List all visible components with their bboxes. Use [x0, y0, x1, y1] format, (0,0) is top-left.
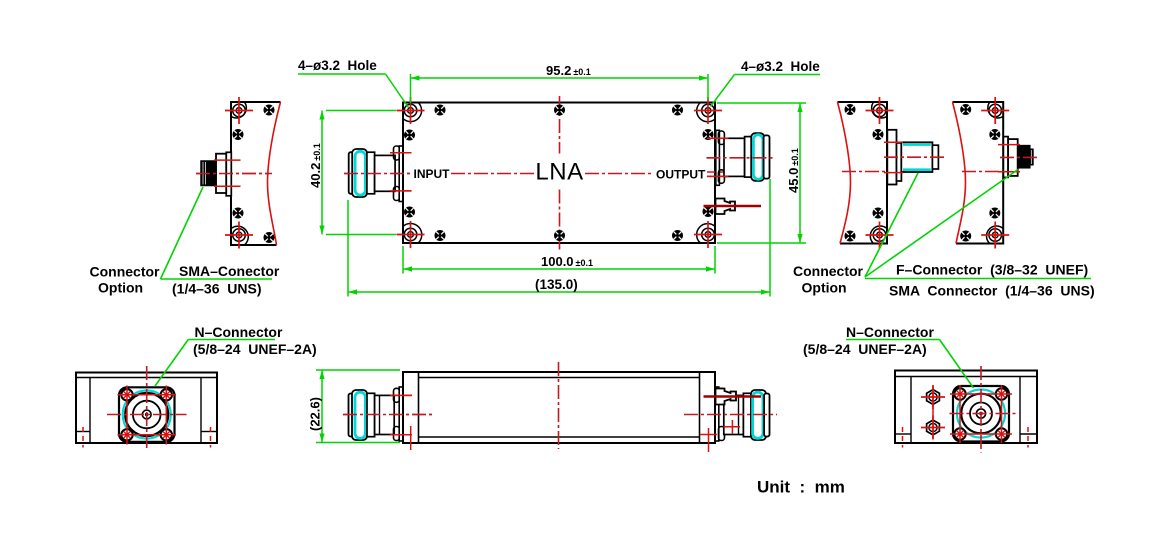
callout 4-dia3.2 hole right: underline	[735, 74, 821, 76]
dimension (22.6): extension line top	[316, 369, 400, 371]
bottom-middle view: right N connector barrel	[724, 395, 744, 434]
output N-connector: mounting tab bottom	[718, 170, 724, 184]
input N-connector: tab centerline bottom overlay	[390, 190, 412, 192]
main view: corner lug fillet top-left	[403, 103, 422, 122]
main view: corner lug fillet bottom-right	[697, 224, 715, 243]
right view F: mounting hole top	[866, 97, 894, 124]
DC feedthrough: pin centerline	[704, 205, 762, 208]
svg-text:N–Connector: N–Connector	[846, 324, 934, 340]
dimension 40.2: arrow top	[319, 111, 324, 120]
bottom-right view: N connector flange square	[953, 386, 1009, 442]
input N-connector: mounting tab bottom	[394, 187, 400, 201]
main view: horizontal axis centerline input-side	[344, 173, 412, 175]
bottom-right view: flange screw column line right	[1001, 385, 1003, 443]
main view: cover screw bottom-middle	[554, 230, 565, 241]
svg-text:(5/8–24 UNEF–2A): (5/8–24 UNEF–2A)	[803, 341, 927, 357]
svg-text:LNA: LNA	[535, 159, 583, 186]
main view: vertical centerline upper segment	[559, 96, 561, 154]
bottom-left view: lid seam line	[76, 377, 217, 379]
right view F: F-connector end cap	[932, 145, 938, 169]
input N-connector: flange plate	[399, 146, 403, 202]
main view: output connector tab centerline bottom	[707, 175, 729, 177]
main view: cover screw right-lower	[703, 206, 714, 217]
right view F: tab centerline bottom	[884, 172, 903, 174]
bottom-middle view: left N connector tab bottom	[394, 427, 400, 441]
svg-text:N–Connector: N–Connector	[195, 324, 283, 340]
main view: input connector tab centerline bottom	[390, 190, 412, 192]
left side view: SMA connector step plate outer	[226, 152, 231, 196]
bottom-middle view: left N connector spacer ring	[367, 393, 375, 436]
bottom-middle view: right N connector cyan ring	[753, 392, 763, 438]
connector option callout right: underline	[865, 278, 1091, 280]
left side view: cover screw mid-lower	[233, 208, 244, 219]
output N-connector: end cap	[764, 135, 770, 178]
svg-text:4–ø3.2 Hole: 4–ø3.2 Hole	[741, 59, 820, 74]
bottom-left view: flange screw column line left	[126, 386, 128, 445]
main view: corner lug fillet bottom-left	[403, 223, 422, 243]
N connector callout left: leader	[155, 340, 188, 387]
dimension (135.0): dimension line	[348, 291, 770, 293]
bottom-left view: N connector pin dot	[145, 413, 148, 416]
bottom-middle view: flange line left	[418, 372, 420, 443]
bottom-left view: flange screw bottom-left	[121, 429, 132, 440]
right view SMA: tab centerline top	[998, 144, 1020, 146]
bottom-right view: DC terminal hex nut bottom	[921, 416, 945, 440]
dimension 95.2: arrow right	[699, 75, 708, 80]
bottom-middle view: right N connector tab top	[719, 388, 725, 402]
main view: output connector axis centerline	[707, 157, 773, 159]
dimension (22.6): dimension line	[321, 370, 323, 443]
left side view: plate centerline overlay	[196, 173, 269, 175]
left side view: SMA connector step plate inner	[216, 154, 226, 193]
dimension (22.6): extension line bottom	[316, 442, 400, 444]
bottom-middle view: lid seam bottom	[419, 436, 700, 438]
svg-text:(135.0): (135.0)	[535, 277, 578, 292]
svg-text:OUTPUT: OUTPUT	[656, 168, 706, 182]
input N-connector: cyan highlight ring	[355, 151, 365, 195]
right view F: corner lug bottom	[870, 226, 887, 243]
bottom-left view: screw hole mark left	[82, 427, 84, 448]
input N-connector: spacer ring	[367, 152, 375, 194]
dimension 40.2: extension line bottom	[326, 234, 396, 236]
svg-text:(22.6): (22.6)	[308, 397, 323, 431]
bottom-middle view: left connector axis centerline	[343, 414, 432, 416]
right view SMA: break line curve	[953, 102, 966, 244]
bottom-middle view: right N connector tab bottom	[719, 427, 725, 441]
svg-text:Option: Option	[802, 280, 847, 296]
bottom-left view: flange screw column line right	[165, 386, 167, 445]
bottom-middle view: vertical centerline	[558, 362, 560, 449]
bottom-middle view: left tab centerline top	[390, 394, 412, 396]
bottom-right view: DC terminal column line	[932, 386, 934, 438]
bottom-right view: inner wall line left	[910, 377, 912, 444]
svg-text:Option: Option	[98, 280, 143, 296]
dimension 95.2: arrow left	[411, 75, 420, 80]
SMA connector option callout left: underline	[161, 278, 273, 280]
main view: cover screw bottom-right	[672, 230, 683, 241]
svg-text:100.0±0.1: 100.0±0.1	[541, 254, 593, 269]
dimension 100.0: extension line right	[714, 246, 716, 274]
left side view: SMA connector body hatch	[203, 162, 206, 185]
right view F: cover screw bottom-left	[845, 231, 856, 242]
left side view: plate outline with top and bottom edges	[231, 102, 281, 245]
bottom-right view: N connector pin circle	[976, 409, 985, 418]
bottom-middle view: right axis centerline overlay	[684, 414, 777, 416]
bottom-middle view: right N connector coupling nut	[751, 390, 766, 440]
bottom-middle view: body outline	[403, 372, 715, 443]
bottom-middle view: right N connector spacer ring	[743, 393, 751, 436]
left side view: SMA connector body	[201, 161, 216, 186]
bottom-right view: flange screw bottom-left	[954, 428, 965, 439]
bottom-middle view: right N connector end cap	[764, 394, 769, 437]
dimension 95.2: extension line left	[410, 74, 412, 103]
svg-text:45.0±0.1: 45.0±0.1	[786, 148, 801, 193]
right view SMA: SMA step plate inner	[1008, 139, 1018, 176]
bottom-right view: base lip right	[1020, 433, 1037, 435]
right view SMA: cover screw top-left	[960, 104, 971, 115]
DC feedthrough: body	[716, 199, 736, 215]
bottom-right view: flange screw top-left	[954, 388, 965, 399]
bottom-middle view: left axis centerline overlay	[343, 414, 432, 416]
right view F: plate centerline	[842, 171, 887, 173]
svg-text:SMA Connector (1/4–36 UNS): SMA Connector (1/4–36 UNS)	[889, 283, 1095, 299]
output N-connector: spacer ring	[745, 137, 752, 178]
input N-connector: coupling nut end cap	[349, 152, 354, 194]
bottom-middle view: left N connector coupling nut	[352, 390, 367, 440]
right view SMA: corner lug bottom	[986, 226, 1003, 243]
output N-connector: tab centerline bottom overlay	[707, 175, 729, 177]
bottom-left view: inner wall line right	[200, 378, 202, 444]
svg-text:(5/8–24 UNEF–2A): (5/8–24 UNEF–2A)	[193, 341, 317, 357]
bottom-left view: body outline	[76, 373, 217, 444]
svg-text:SMA–Conector: SMA–Conector	[179, 263, 280, 279]
input N-connector: axis centerline overlay	[344, 173, 412, 175]
right view SMA: SMA connector cap	[1030, 149, 1033, 165]
bottom-right view: flange screw row line top	[950, 393, 1012, 395]
bottom-middle view: lid seam top	[419, 377, 700, 379]
main view: cover screw bottom-left	[435, 230, 446, 241]
bottom-left view: N connector outer circle	[125, 393, 168, 436]
connector option callout right: leader to F connector	[865, 173, 918, 277]
bottom-middle view: DC feedthrough pin line	[704, 395, 762, 398]
bottom-left view: base lip left	[76, 431, 90, 433]
main view: mounting hole 3.2mm bottom-right	[694, 221, 722, 248]
right view F: connector axis centerline	[884, 156, 944, 158]
bottom-left view: N connector flange square	[119, 387, 175, 442]
right view F: cover screw mid-upper	[873, 129, 884, 140]
bottom-right view: body outline	[895, 371, 1037, 444]
dimension 95.2: dimension line	[411, 77, 709, 79]
svg-text:F–Connector (3/8–32 UNEF): F–Connector (3/8–32 UNEF)	[896, 262, 1088, 278]
left side view: plate centerline	[196, 173, 272, 175]
SMA connector option callout left: leader	[161, 187, 204, 279]
right view SMA: plate centerline	[962, 171, 1003, 173]
dimension 45.0: arrow top	[797, 103, 802, 112]
dimension 45.0: arrow bottom	[797, 234, 802, 243]
bottom-middle view: left hole mark vertical	[410, 426, 412, 450]
bottom-right view: flange screw top-right	[996, 388, 1007, 399]
right view F: break line curve	[838, 102, 851, 244]
bottom-right view: cyan connector highlight circle	[957, 390, 1005, 438]
dimension (22.6): arrow top	[319, 370, 324, 379]
main view: cover screw left-lower	[404, 207, 415, 218]
dimension (135.0): arrow left	[348, 289, 357, 294]
bottom-right view: vertical centerline overlay	[980, 366, 982, 453]
bottom-middle view: right hole mark horizontal	[700, 434, 717, 436]
svg-text:40.2±0.1: 40.2±0.1	[308, 143, 323, 188]
output N-connector: flange plate	[716, 130, 720, 185]
dimension (135.0): arrow right	[761, 289, 770, 294]
right view SMA: mounting hole top	[981, 97, 1009, 124]
bottom-left view: screw hole mark right	[210, 427, 212, 448]
left side view: cover screw bottom-right	[264, 232, 275, 243]
left side view: corner lug bottom	[231, 226, 248, 245]
bottom-right view: N connector outer circle	[961, 394, 1001, 434]
main view: horizontal axis centerline INPUT-to-LNA	[451, 173, 534, 175]
bottom-right view: N connector pin dot	[979, 412, 982, 415]
right view F: cover screw top-left	[845, 104, 856, 115]
dimension (22.6): arrow bottom	[319, 434, 324, 443]
left side view: mounting hole top	[225, 97, 253, 124]
bottom-right view: lid seam line	[895, 376, 1037, 378]
bottom-right view: DC terminal hex nut top	[921, 385, 945, 409]
left side view: corner lug top	[231, 102, 246, 118]
callout 4-dia3.2 hole left: leader	[386, 74, 409, 108]
bottom-middle view: left N connector barrel step line	[379, 395, 381, 434]
main view: cover screw right-upper	[703, 129, 714, 140]
bottom-middle view: left N connector barrel	[375, 395, 395, 434]
dimension 100.0: arrow right	[706, 266, 715, 271]
dimension 40.2: arrow bottom	[319, 226, 324, 235]
callout 4-dia3.2 hole left: underline	[298, 73, 386, 75]
dimension 40.2: dimension line	[321, 111, 323, 235]
bottom-left view: flange screw top-right	[161, 389, 172, 400]
N connector callout right: leader	[940, 340, 974, 389]
bottom-middle view: right N connector flange plate	[715, 387, 719, 441]
bottom-left view: N connector inner circle	[133, 401, 161, 429]
bottom-right view: flange screw column line left	[959, 385, 961, 443]
output N-connector: mounting tab top	[718, 131, 724, 145]
bottom-middle view: flange line right	[699, 372, 701, 443]
right view SMA: cover screw mid-lower	[989, 208, 1000, 219]
bottom-left view: cyan connector highlight circle	[123, 391, 171, 439]
bottom-middle view: left tab centerline bottom	[390, 434, 412, 436]
dimension 95.2: extension line right	[707, 74, 709, 100]
main view: input connector tab centerline top	[390, 152, 412, 154]
bottom-middle view: right hole mark vertical	[708, 428, 710, 452]
main view: mounting hole 3.2mm top-right	[694, 97, 722, 124]
bottom-middle view: left N connector tab top	[394, 388, 400, 402]
left side view: mounting hole bottom	[225, 222, 253, 249]
dimension 45.0: extension line bottom	[717, 242, 806, 244]
bottom-middle view: left tab centerline top overlay	[390, 394, 412, 396]
right view SMA: tab centerline bottom	[998, 171, 1020, 173]
output N-connector: tab centerline top overlay	[707, 137, 729, 139]
svg-text:Connector: Connector	[90, 264, 161, 280]
right view SMA: connector axis centerline	[1000, 156, 1039, 158]
input N-connector: mounting tab top	[394, 146, 400, 160]
left side view: break line curve	[268, 102, 281, 245]
left side view: cover screw mid-upper	[233, 129, 244, 140]
svg-text:INPUT: INPUT	[414, 167, 451, 181]
main view: horizontal axis centerline LNA-to-OUTPUT	[585, 173, 653, 175]
bottom-left view: flange screw bottom-right	[161, 429, 172, 440]
right view SMA: SMA connector body	[1018, 146, 1030, 168]
bottom-right view: N connector inner circle	[970, 403, 992, 425]
input N-connector: barrel body	[375, 155, 396, 191]
dimension (135.0): extension line left	[347, 200, 349, 297]
svg-text:4–ø3.2 Hole: 4–ø3.2 Hole	[298, 58, 377, 73]
right view F: corner lug top	[872, 102, 887, 118]
main view: cover screw top-right	[672, 105, 683, 116]
dimension 40.2: extension line top	[326, 110, 396, 112]
right view SMA: SMA step plate outer	[1003, 137, 1008, 178]
bottom-right view: screw hole mark left	[902, 427, 904, 448]
left side view: SMA tab centerline top	[214, 159, 241, 161]
main view: corner lug fillet top-right	[697, 103, 715, 122]
bottom-left view: inner wall line left	[89, 378, 91, 444]
right view SMA: plate outline	[953, 102, 1004, 244]
right view F: F-connector step plate outer	[887, 130, 896, 185]
right view F: cover screw mid-lower	[873, 208, 884, 219]
main view: mounting hole 3.2mm top-left	[397, 97, 425, 124]
main view: cover screw left-upper	[404, 130, 415, 141]
bottom-middle view: left N connector cyan ring	[355, 392, 365, 438]
dimension 45.0: extension line top	[717, 102, 806, 104]
output N-connector: coupling nut body	[751, 133, 764, 181]
main view: mounting hole 3.2mm bottom-left	[397, 221, 425, 248]
left side view: SMA tab centerline bottom	[214, 185, 241, 187]
callout 4-dia3.2 hole right: leader	[711, 75, 735, 107]
bottom-middle view: DC feedthrough body	[716, 389, 737, 405]
input N-connector: tab centerline top overlay	[390, 152, 412, 154]
main view: LNA module top view body outline	[403, 103, 715, 244]
bottom-right view: horizontal centerline overlay	[950, 413, 1017, 415]
bottom-middle view: left N connector end cap	[349, 394, 354, 437]
right view SMA: SMA cap hatch	[1030, 150, 1032, 164]
bottom-middle view: right tab hole cross vertical	[731, 420, 733, 434]
bottom-right view: flange screw bottom-right	[996, 428, 1007, 439]
bottom-left view: vertical centerline overlay	[146, 366, 148, 448]
bottom-left view: N connector pin circle	[142, 410, 151, 419]
connector option callout right: leader to SMA connector	[865, 170, 1018, 278]
right view SMA: mounting hole bottom	[981, 222, 1009, 249]
right view F: F-connector barrel cyan strip top	[903, 143, 931, 146]
bottom-middle view: right N connector barrel step line	[738, 395, 740, 434]
right view F: F-connector step plate inner	[897, 143, 902, 181]
dimension 100.0: dimension line	[403, 268, 715, 270]
dimension 100.0: extension line left	[402, 246, 404, 274]
bottom-middle view: left N connector flange plate	[399, 387, 403, 441]
N connector callout left: underline	[188, 339, 275, 341]
left side view: cover screw top-right	[264, 105, 275, 116]
right view SMA: corner lug top	[988, 102, 1003, 118]
bottom-left view: flange screw top-left	[121, 389, 132, 400]
right view SMA: cover screw bottom-left	[960, 231, 971, 242]
output N-connector: cyan highlight ring	[753, 135, 763, 180]
svg-text:95.2±0.1: 95.2±0.1	[546, 63, 591, 78]
right view F: mounting hole bottom	[866, 222, 894, 249]
bottom-left view: horizontal centerline overlay	[107, 414, 187, 416]
main view: cover screw top-middle	[554, 105, 565, 116]
dimension 45.0: dimension line	[799, 103, 801, 243]
right view F: F-connector barrel	[901, 142, 932, 172]
main view: horizontal axis centerline right of OUTPUT	[707, 171, 729, 173]
bottom-left view: flange screw row line top	[118, 394, 177, 396]
svg-text:(1/4–36 UNS): (1/4–36 UNS)	[172, 281, 261, 297]
bottom-right view: flange screw row line bottom	[950, 433, 1012, 435]
right view SMA: cover screw mid-upper	[989, 129, 1000, 140]
right view F: tab centerline top	[884, 141, 903, 143]
svg-text:Unit : mm: Unit : mm	[757, 478, 845, 497]
output N-connector: barrel body	[724, 138, 745, 176]
dimension (135.0): extension line right	[769, 179, 771, 297]
bottom-right view: base lip left	[895, 433, 911, 435]
bottom-right view: screw hole mark right	[1027, 427, 1029, 448]
svg-text:Connector: Connector	[793, 263, 864, 279]
bottom-middle view: left tab centerline bottom overlay	[390, 434, 412, 436]
N connector callout right: underline	[846, 339, 940, 341]
output N-connector: axis centerline overlay	[707, 157, 773, 159]
dimension 100.0: arrow left	[403, 266, 412, 271]
main view: cover screw top-left	[435, 105, 446, 116]
bottom-left view: base lip right	[201, 431, 217, 433]
right view F: plate outline	[838, 102, 888, 244]
input N-connector: coupling nut body	[352, 149, 367, 197]
main view: output connector tab centerline top	[707, 137, 729, 139]
right view F: F-connector barrel cyan strip bottom	[903, 168, 931, 171]
main view: vertical centerline lower segment	[559, 190, 561, 253]
bottom-right view: inner wall line right	[1019, 377, 1021, 444]
bottom-middle view: right tab hole cross horizontal	[724, 426, 741, 428]
bottom-left view: flange screw row line bottom	[118, 434, 177, 436]
